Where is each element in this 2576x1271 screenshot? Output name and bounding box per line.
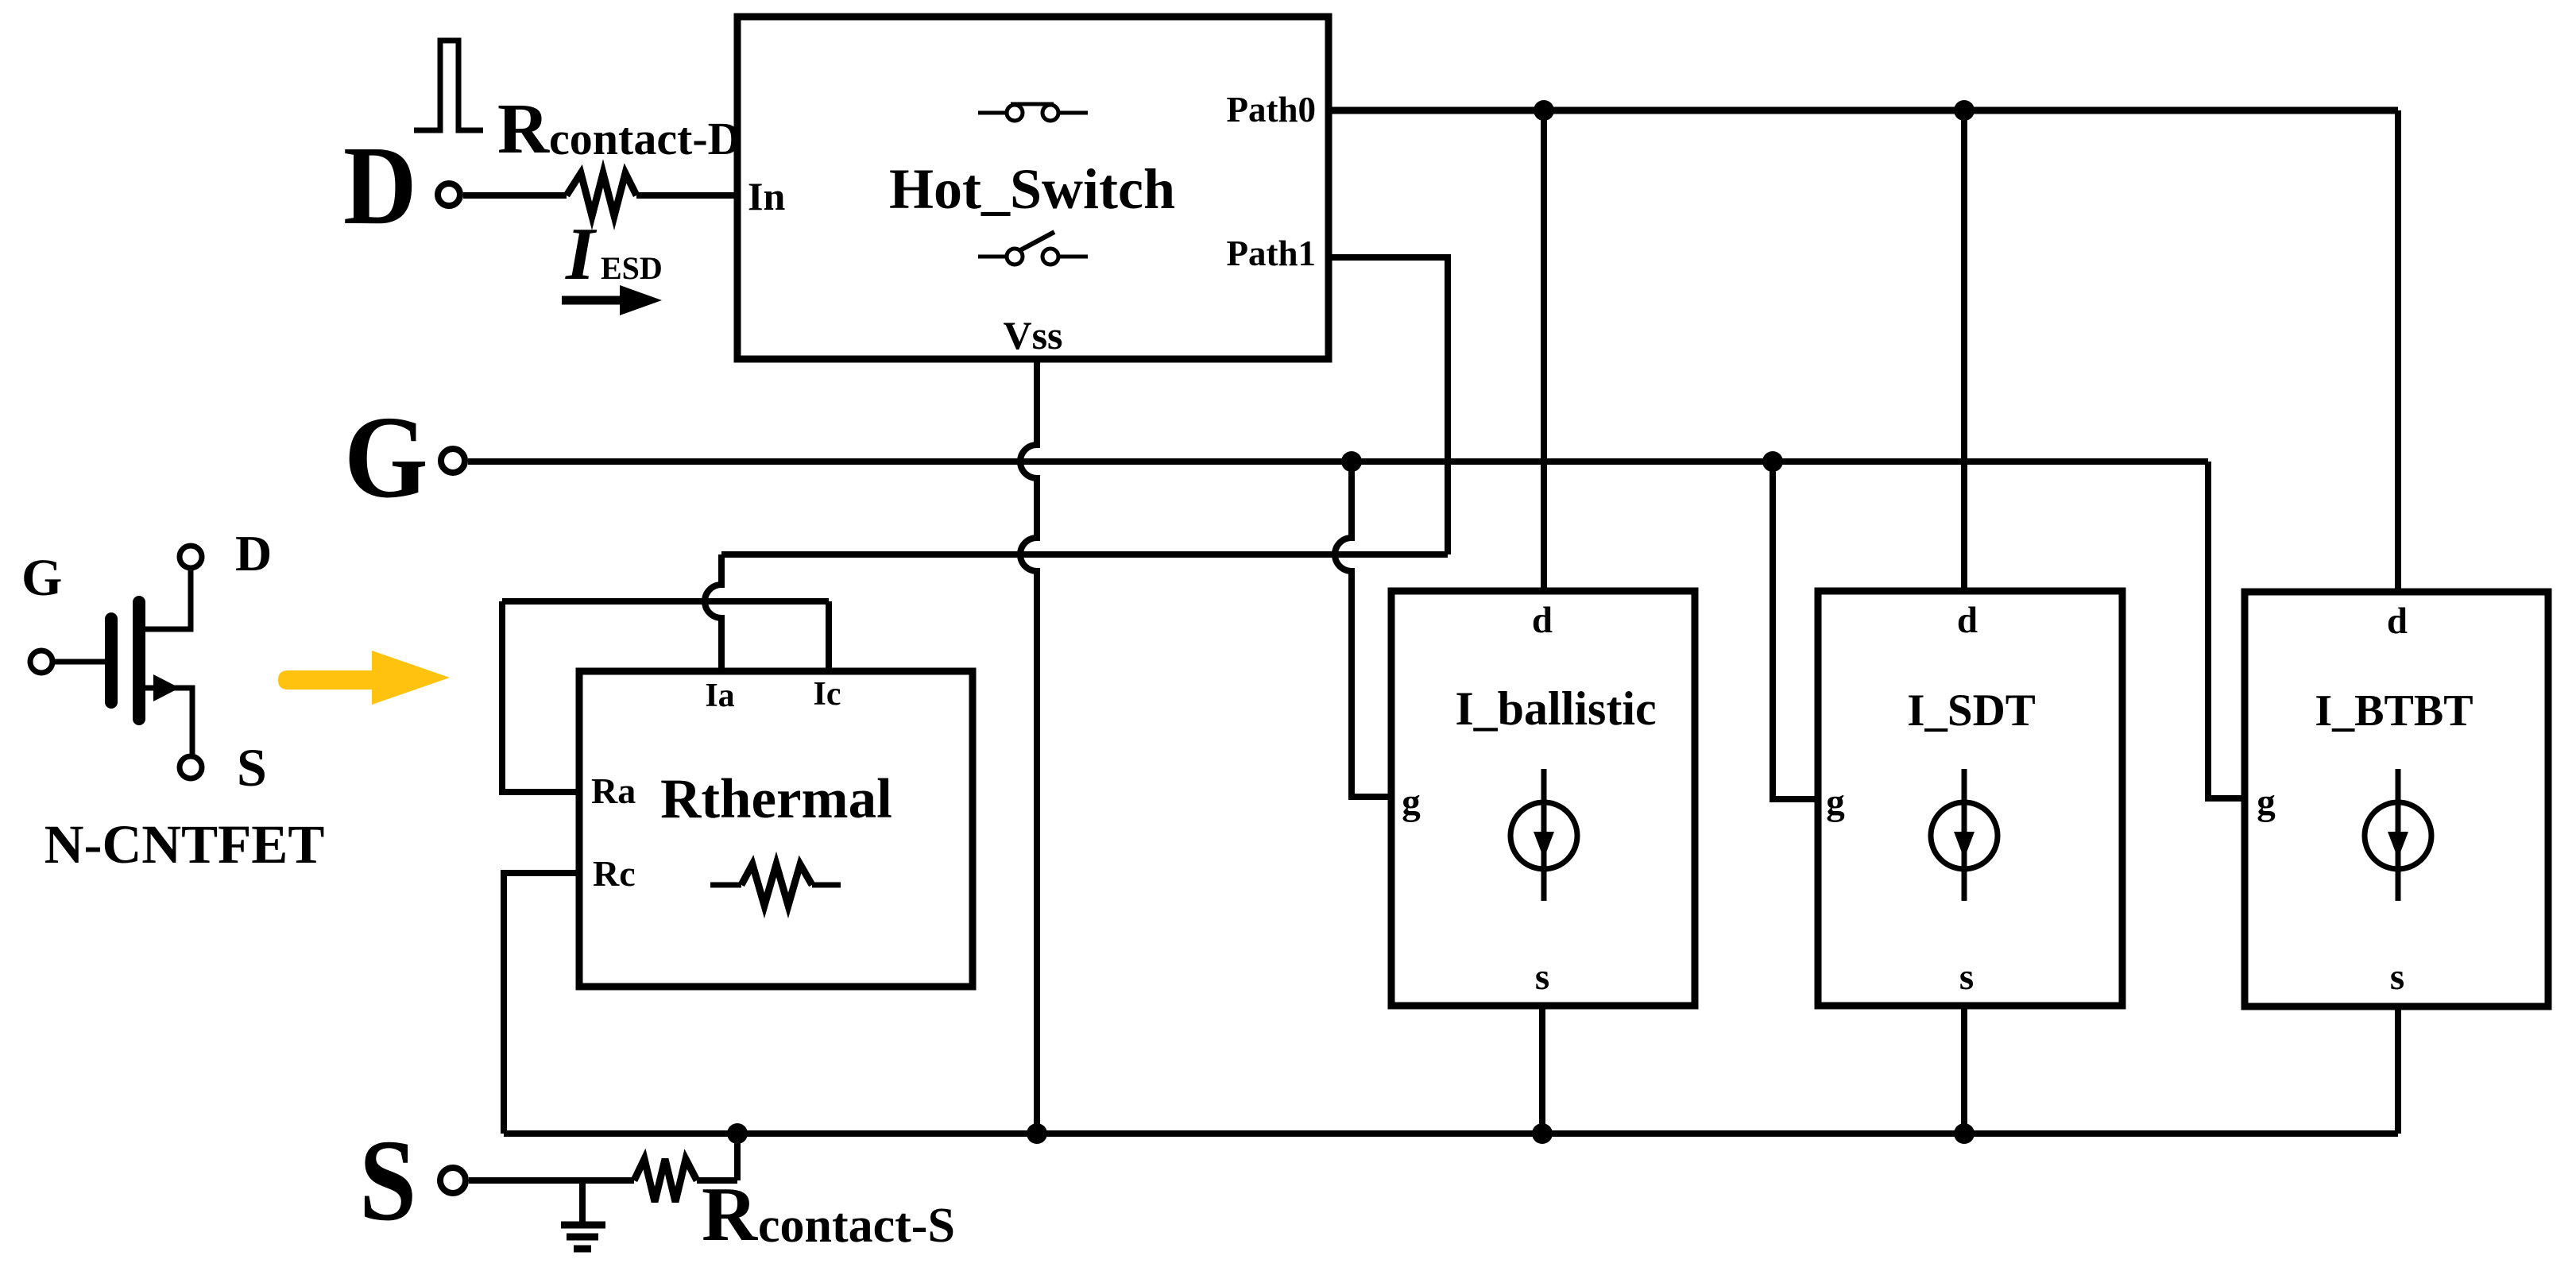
I_ESD arrow (562, 285, 662, 315)
source arrowhead (153, 674, 180, 701)
terminal D (343, 124, 460, 249)
wire s I_ballistic (1539, 1006, 1545, 1134)
wire d drop I_BTBT (2395, 110, 2401, 592)
svg-text:ESD: ESD (601, 250, 663, 286)
wire source branch (145, 688, 192, 755)
svg-text:Rthermal: Rthermal (660, 768, 892, 830)
svg-text:N-CNTFET: N-CNTFET (44, 814, 325, 875)
svg-text:D: D (343, 124, 416, 249)
svg-text:g: g (1402, 782, 1421, 823)
wire D to resistor (463, 192, 567, 199)
svg-text:S: S (359, 1116, 416, 1246)
terminal g circle (N-CNTFET) (30, 651, 52, 673)
terminal G (344, 392, 465, 523)
wire Ra-Ic link (502, 598, 829, 605)
svg-text:g: g (2257, 782, 2276, 823)
block Hot_Switch (737, 17, 1329, 359)
label Rcontact-D (497, 90, 741, 168)
ground bus wire (504, 1130, 2398, 1137)
terminal s circle (N-CNTFET) (180, 756, 202, 778)
resistor inside Rthermal (710, 864, 841, 906)
svg-text:Path1: Path1 (1227, 234, 1317, 273)
wire s I_BTBT (2395, 1006, 2401, 1134)
svg-text:I: I (565, 213, 598, 296)
wire drain branch (145, 569, 191, 629)
wire Vss drop with hops (1020, 359, 1037, 1134)
wire g drop I_BTBT (2208, 462, 2245, 798)
svg-text:D: D (235, 525, 272, 581)
terminal d circle (N-CNTFET) (180, 546, 202, 568)
wire Path1 net (1329, 257, 1448, 554)
junction bus / Vss (1027, 1123, 1047, 1144)
annotation arrow yellow (278, 651, 450, 705)
switch Path0 closed (978, 104, 1088, 121)
gate bar (105, 619, 118, 702)
svg-text:R: R (702, 1172, 758, 1257)
svg-text:G: G (21, 549, 62, 607)
junction G / I_SDT g (1762, 451, 1783, 472)
ground symbol (561, 1180, 605, 1249)
current source I_SDT (1931, 769, 1998, 901)
junction Path0 / I_SDT d (1954, 100, 1975, 121)
wire d drop I_ballistic (1541, 110, 1547, 591)
svg-text:s: s (1959, 956, 1974, 998)
svg-text:Ia: Ia (705, 678, 734, 714)
wire S to resistor (469, 1177, 634, 1184)
junction bus / Rcontact-S (727, 1123, 748, 1144)
svg-text:Ra: Ra (591, 771, 636, 811)
svg-text:In: In (748, 174, 785, 218)
block I_ballistic (1391, 591, 1695, 1006)
label I_ESD (565, 213, 663, 296)
svg-text:Rc: Rc (593, 853, 636, 894)
wire Path0 net (1329, 107, 2398, 114)
ESD pulse symbol (414, 41, 483, 130)
terminal S (359, 1116, 466, 1246)
wire resistor to In (636, 192, 737, 199)
svg-text:I_SDT: I_SDT (1907, 686, 2036, 736)
svg-text:s: s (1535, 956, 1549, 998)
block I_BTBT (2245, 592, 2548, 1006)
wire Path1 to Rthermal Ia (721, 551, 1448, 558)
svg-text:Ic: Ic (814, 676, 841, 713)
wire s I_SDT (1961, 1006, 1967, 1134)
resistor Rcontact-D (567, 173, 636, 216)
block I_SDT (1818, 591, 2122, 1006)
junction bus / I_ballistic s (1532, 1123, 1553, 1144)
svg-text:G: G (344, 392, 428, 523)
resistor Rcontact-S (634, 1134, 737, 1202)
svg-text:R: R (497, 90, 550, 168)
transistor N-CNTFET symbol (21, 525, 324, 875)
svg-text:d: d (1532, 600, 1553, 641)
wire Rc to ground bus (504, 873, 579, 1134)
junction G / I_ballistic g (1341, 451, 1362, 472)
wire Ic drop (826, 601, 832, 671)
current source I_ballistic (1510, 769, 1577, 901)
svg-text:contact-D: contact-D (549, 113, 741, 164)
wire Ra (502, 601, 579, 792)
block Rthermal (579, 671, 973, 987)
wire g drop I_SDT (1773, 462, 1818, 799)
svg-text:Hot_Switch: Hot_Switch (889, 157, 1175, 221)
svg-text:d: d (1957, 600, 1978, 641)
wire d drop I_SDT (1961, 110, 1967, 591)
svg-text:I_BTBT: I_BTBT (2315, 686, 2473, 736)
current source I_BTBT (2365, 769, 2431, 901)
label Rcontact-S (702, 1172, 955, 1257)
wire g drop I_ballistic with hop (1335, 462, 1391, 797)
junction bus / I_SDT s (1954, 1123, 1975, 1144)
wire G net (468, 458, 2208, 465)
wire gate lead (55, 659, 105, 665)
svg-text:I_ballistic: I_ballistic (1455, 682, 1656, 735)
junction Path0 / I_ballistic d (1534, 100, 1554, 121)
switch Path1 open (978, 232, 1088, 265)
wire Ia riser with hop (705, 554, 721, 671)
svg-text:Path0: Path0 (1227, 90, 1317, 129)
svg-text:S: S (237, 737, 267, 798)
svg-text:s: s (2390, 956, 2404, 998)
channel bar (133, 602, 145, 719)
svg-text:g: g (1826, 782, 1845, 823)
svg-text:Vss: Vss (1003, 313, 1062, 357)
svg-text:d: d (2387, 601, 2408, 642)
svg-text:contact-S: contact-S (758, 1199, 955, 1253)
